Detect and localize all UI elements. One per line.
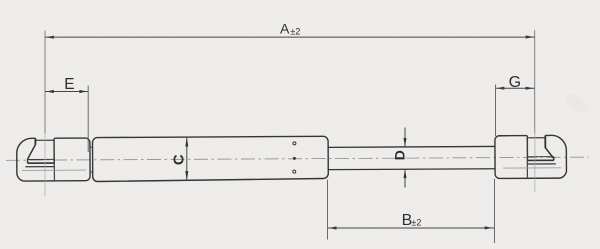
dimension D lower arrow	[404, 169, 407, 178]
dimension A line	[45, 36, 535, 38]
dimension G line	[496, 87, 535, 89]
dimension B right arrow	[485, 226, 493, 229]
right fitting divider line	[526, 136, 528, 179]
right fitting slot diagonal	[545, 148, 553, 159]
right eyelet fitting outer contour	[495, 135, 567, 178]
piston rod top line	[328, 145, 495, 148]
cylinder dot top	[293, 142, 296, 145]
extension line E right	[87, 86, 89, 153]
right fitting flap vertical	[544, 136, 546, 148]
svg-text:E: E	[64, 76, 74, 93]
dimension C line	[186, 137, 188, 180]
dimension D upper line	[404, 128, 406, 147]
extension line B right	[494, 179, 496, 243]
cylinder dot bottom	[293, 170, 296, 173]
left fitting slot floor upper	[28, 158, 54, 160]
neck tick bottom	[90, 171, 93, 173]
left fitting divider upper thick part	[53, 138, 55, 163]
svg-text:±2: ±2	[290, 26, 300, 36]
dimension G left arrow	[497, 87, 505, 90]
left fitting flap vertical	[34, 138, 36, 145]
main horizontal centerline	[6, 157, 589, 160]
right fitting slot floor lower	[528, 159, 554, 161]
right eyelet vertical centerline / extension line A-G	[534, 30, 536, 133]
dimension B line	[328, 227, 495, 229]
svg-text:C: C	[170, 154, 187, 165]
left eyelet centerline lower	[44, 133, 46, 196]
left fitting slot corner vertical	[27, 159, 29, 164]
left fitting slot diagonal	[28, 145, 36, 159]
dimension A left arrow	[46, 36, 54, 39]
gas spring part drawing (slightly tilted as in scan)	[6, 135, 589, 182]
right fitting divider upper thick part	[526, 136, 528, 161]
dimension D lower line	[404, 169, 406, 187]
dimension C top arrow	[185, 137, 188, 146]
piston rod bottom line	[328, 168, 495, 171]
dimension E left arrow	[46, 90, 54, 93]
svg-text:A: A	[280, 21, 290, 37]
dimension D upper arrow	[404, 138, 407, 147]
dimension A right arrow	[526, 35, 534, 38]
dimension E line	[45, 91, 88, 93]
right eyelet centerline lower	[534, 127, 536, 192]
svg-text:D: D	[391, 150, 407, 160]
dimension G right arrow	[526, 87, 534, 90]
dimension B left arrow	[329, 226, 337, 229]
svg-text:G: G	[509, 74, 521, 91]
dimension E right arrow	[79, 90, 87, 93]
right fitting faint inner line	[503, 167, 561, 169]
cylinder dot middle	[293, 157, 296, 160]
left fitting divider line	[53, 138, 55, 181]
faint smudge right side	[563, 91, 591, 116]
extension line B left	[327, 180, 329, 240]
right fitting shelf line	[527, 163, 555, 165]
cylinder body	[92, 136, 328, 181]
left eyelet vertical centerline / extension line A-E	[44, 31, 46, 134]
left fitting slot floor lower	[28, 162, 54, 164]
right fitting slot opening floor	[527, 137, 545, 139]
left fitting shelf line	[25, 166, 54, 168]
left fitting slot opening floor	[35, 139, 54, 141]
left fitting faint inner line	[22, 169, 86, 171]
neck tick top	[90, 146, 93, 148]
right fitting slot corner vertical	[553, 157, 555, 160]
extension line G left	[495, 85, 497, 137]
left eyelet fitting outer contour	[17, 138, 90, 181]
dimension C bottom arrow	[185, 171, 188, 180]
right fitting slot floor upper	[527, 156, 553, 158]
svg-text:±2: ±2	[411, 218, 421, 228]
